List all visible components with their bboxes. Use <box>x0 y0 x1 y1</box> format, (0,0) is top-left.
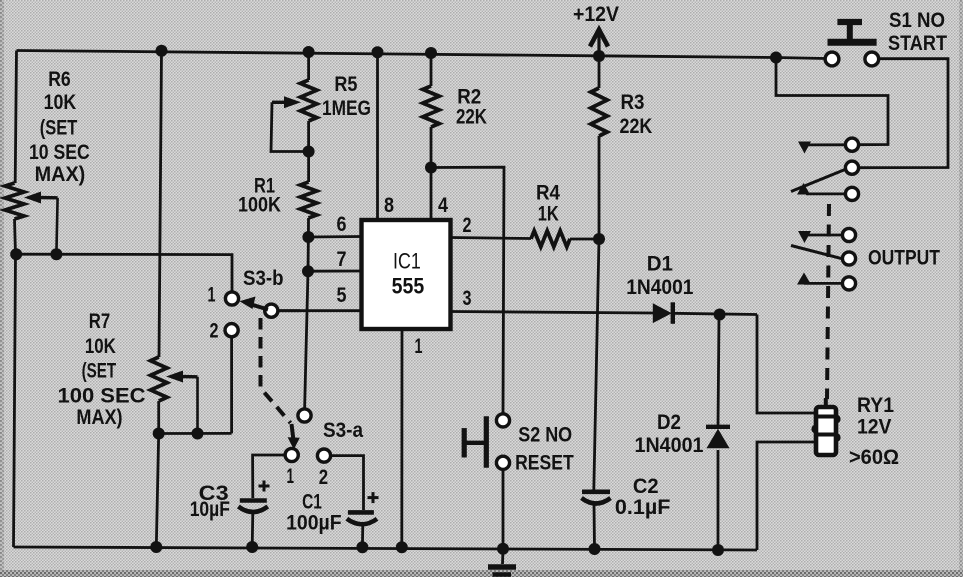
node +12V junction <box>593 50 605 62</box>
node bottom bus C1 <box>356 541 368 553</box>
node R6 wiper junction <box>50 248 62 260</box>
wire pin3 output <box>451 312 654 314</box>
relay contact terminal 1 <box>845 138 858 151</box>
svg-text:7: 7 <box>337 248 347 271</box>
wire R4 to R3 <box>570 238 599 241</box>
svg-text:8: 8 <box>384 194 394 217</box>
wire S2 to ground bus <box>501 470 504 565</box>
wire pin5 <box>278 309 362 312</box>
wire R5 top lead <box>307 52 310 80</box>
svg-text:10K: 10K <box>44 91 77 114</box>
node pin6 junction <box>302 231 314 243</box>
relay coil RY1 <box>811 424 820 433</box>
svg-text:MAX): MAX) <box>76 406 122 429</box>
capacitor C1 100uF <box>348 510 374 515</box>
wire relay NO2 stub <box>804 282 842 285</box>
capacitor C2 0.1uF <box>582 489 610 494</box>
relay pole 1 arm <box>791 170 845 192</box>
node D1 junction <box>714 309 726 321</box>
node pin7 junction <box>302 265 314 277</box>
svg-text:1MEG: 1MEG <box>322 97 371 120</box>
wire bottom ground bus <box>14 547 758 550</box>
svg-text:10K: 10K <box>85 335 116 358</box>
svg-text:2: 2 <box>319 466 328 489</box>
wire S3-a throw1 to C3 <box>253 455 286 498</box>
switch S3 ganged link dashed <box>261 318 291 423</box>
resistor R6 <box>5 183 24 219</box>
svg-text:4: 4 <box>438 194 448 217</box>
wiper arrow R7 <box>166 371 183 383</box>
svg-text:1: 1 <box>287 465 295 488</box>
node bottom bus D2 <box>712 544 724 556</box>
svg-text:R6: R6 <box>48 68 70 91</box>
svg-text:S3-a: S3-a <box>323 419 363 442</box>
node pin4 junction <box>425 162 437 174</box>
switch S2 contact upper <box>496 414 509 427</box>
node R2 top junction <box>425 47 437 59</box>
switch S2 button stem <box>466 441 484 445</box>
svg-text:RY1: RY1 <box>857 394 894 417</box>
svg-text:>60Ω: >60Ω <box>849 446 899 469</box>
wire R7 wiper drop <box>196 377 199 434</box>
switch S2 contact lower <box>496 456 509 469</box>
wire relay NC1 stub <box>806 143 845 146</box>
svg-text:1K: 1K <box>538 203 559 226</box>
svg-text:1: 1 <box>415 335 423 358</box>
svg-text:1: 1 <box>208 284 216 307</box>
wire R2 to pin4 <box>430 127 433 220</box>
switch S1 button plate <box>828 39 877 46</box>
wire relay coil top feed <box>757 315 816 414</box>
wire C3 bottom stem <box>251 513 254 548</box>
wire R7 branch upper <box>159 51 162 357</box>
diode D1 1N4001 <box>653 303 672 323</box>
svg-text:3: 3 <box>463 287 472 310</box>
svg-text:555: 555 <box>392 274 425 299</box>
node bottom bus C3 <box>246 541 258 553</box>
wiper arrow R5 <box>284 96 301 108</box>
ic U1 IC1 555 box <box>362 220 451 329</box>
wire R7 wiper row <box>159 432 232 435</box>
relay contact NC1 arrow <box>798 142 811 154</box>
svg-text:(SET: (SET <box>40 117 78 140</box>
relay contact NO1 arrow <box>797 183 810 195</box>
wire S3-a throw2 to C1 <box>331 456 364 510</box>
wire R6 wiper row <box>17 254 233 292</box>
svg-text:1N4001: 1N4001 <box>635 434 704 457</box>
wire pin5 stub <box>278 309 300 312</box>
svg-text:IC1: IC1 <box>393 249 421 274</box>
wire R7 lower lead <box>156 401 158 547</box>
switch S2 button cap <box>462 428 467 457</box>
svg-text:S3-b: S3-b <box>243 267 284 290</box>
node R7 top junction <box>156 45 168 57</box>
svg-text:100µF: 100µF <box>286 512 342 535</box>
resistor R3 22K <box>591 88 607 136</box>
wire left edge lower <box>14 219 16 547</box>
svg-text:100 SEC: 100 SEC <box>58 385 146 408</box>
wire C1 bottom stem <box>361 525 364 548</box>
svg-text:START: START <box>888 32 947 55</box>
ground <box>488 564 516 569</box>
switch S3-b wiper arrow <box>251 304 268 309</box>
node bottom bus ground <box>497 543 509 555</box>
switch S3-b throw 1 contact <box>225 292 238 305</box>
wire pin4 to S2 <box>431 167 504 413</box>
svg-text:S1 NO: S1 NO <box>889 9 945 32</box>
resistor R1 100K <box>300 182 316 218</box>
svg-text:D1: D1 <box>647 253 673 276</box>
svg-text:100K: 100K <box>238 194 281 217</box>
svg-text:6: 6 <box>337 213 347 236</box>
relay contact terminal 3 <box>845 187 858 200</box>
+12V supply arrow <box>590 30 608 47</box>
relay contact NC2 arrow <box>798 231 811 243</box>
node bottom bus C2 <box>589 543 601 555</box>
node R5 bottom junction <box>303 146 315 158</box>
wire pin6 <box>308 235 361 238</box>
svg-text:MAX): MAX) <box>35 163 86 186</box>
switch S1 button cap <box>837 19 862 25</box>
relay actuator link dashed <box>827 204 829 399</box>
wire S3-b throw2 drop <box>230 337 233 433</box>
switch S1 contact left <box>825 52 839 66</box>
wire left edge vertical <box>15 51 16 184</box>
svg-text:R3: R3 <box>621 91 645 114</box>
resistor R5 1MEG <box>300 80 316 121</box>
switch S1 contact right <box>865 52 879 66</box>
svg-text:22K: 22K <box>456 106 487 129</box>
svg-text:(SET: (SET <box>82 360 117 383</box>
node R7 wiper junction <box>192 428 204 440</box>
switch S2 button plate <box>484 416 489 468</box>
switch S3-a throw 1 contact <box>285 448 298 461</box>
wire pin1 to ground bus <box>400 329 403 547</box>
relay contact terminal 6 <box>842 277 855 290</box>
relay contact terminal 5 <box>842 252 855 265</box>
svg-text:OUTPUT: OUTPUT <box>868 247 940 270</box>
relay contact terminal 4 <box>842 228 855 241</box>
capacitor C3 10uF <box>240 498 267 503</box>
switch S3-b pole contact <box>265 304 278 317</box>
switch S3-a throw 2 contact <box>317 449 330 462</box>
wire relay coil bottom feed <box>757 442 816 550</box>
wire S1 to relay common <box>859 59 948 168</box>
wire D1 cathode to coil corner <box>674 313 757 314</box>
svg-text:C2: C2 <box>633 475 659 498</box>
svg-text:R4: R4 <box>536 182 560 205</box>
relay contact terminal 2 <box>845 161 858 174</box>
svg-text:+12V: +12V <box>573 3 619 26</box>
switch S3-a wiper arrow <box>292 424 294 438</box>
svg-text:S2 NO: S2 NO <box>518 424 572 447</box>
resistor R2 22K <box>423 86 439 127</box>
svg-text:R5: R5 <box>334 73 357 96</box>
diode D2 1N4001 <box>706 425 730 429</box>
wire R1 to pin7 <box>305 218 309 409</box>
svg-text:R7: R7 <box>89 310 110 333</box>
wire D2 to bottom bus <box>717 450 720 550</box>
wire R6 wiper drop <box>56 198 57 254</box>
node R7 bottom junction <box>153 428 165 440</box>
wire relay NC2 stub <box>804 234 842 237</box>
node R3 bottom junction <box>593 233 605 245</box>
svg-text:D2: D2 <box>657 411 681 434</box>
wire seal-in loop <box>776 58 888 145</box>
node pin8 top junction <box>372 46 384 58</box>
wire R3 top lead <box>598 56 601 88</box>
wire bus to S1 <box>776 58 826 59</box>
svg-text:C1: C1 <box>302 491 322 514</box>
switch S1 button stem <box>847 23 853 40</box>
svg-text:0.1µF: 0.1µF <box>615 496 671 519</box>
wire top +12V bus <box>17 51 777 58</box>
wire pin8 <box>376 53 379 221</box>
relay contact NO2 arrow <box>797 273 811 285</box>
svg-text:2: 2 <box>210 320 219 343</box>
capacitor C1 plus sign <box>368 496 379 499</box>
svg-text:12V: 12V <box>857 416 892 439</box>
svg-text:2: 2 <box>463 214 472 237</box>
wire relay NO1 stub <box>806 192 845 195</box>
resistor R7 <box>151 357 167 401</box>
svg-text:1N4001: 1N4001 <box>626 276 694 299</box>
wire D2 branch upper <box>718 315 719 427</box>
wire pin2 lead <box>451 238 532 239</box>
node bottom bus pin1 <box>396 541 408 553</box>
capacitor C3 plus sign <box>259 485 270 488</box>
switch S3-b throw 2 contact <box>225 324 238 337</box>
relay pole 2 arm <box>791 246 843 259</box>
resistor R4 1K <box>531 231 570 247</box>
wire R2 top lead <box>430 53 433 86</box>
wiper arrow R6 <box>24 192 41 204</box>
svg-text:RESET: RESET <box>515 452 574 475</box>
svg-text:10 SEC: 10 SEC <box>29 141 90 164</box>
node S1 junction <box>770 52 782 64</box>
svg-text:5: 5 <box>337 284 347 307</box>
switch S3-a pole contact <box>298 409 311 422</box>
node bottom bus R7 <box>150 541 162 553</box>
wire R5 wiper loop <box>271 102 309 151</box>
wire pin7 <box>308 270 362 273</box>
wire R3 to C2 <box>594 136 599 491</box>
wire C2 bottom stem <box>593 504 596 550</box>
svg-text:22K: 22K <box>620 115 653 138</box>
node R5 top junction <box>303 46 315 58</box>
wire R5 to R1 <box>307 121 310 182</box>
svg-text:10µF: 10µF <box>190 498 230 521</box>
node R6 bottom junction <box>10 248 22 260</box>
